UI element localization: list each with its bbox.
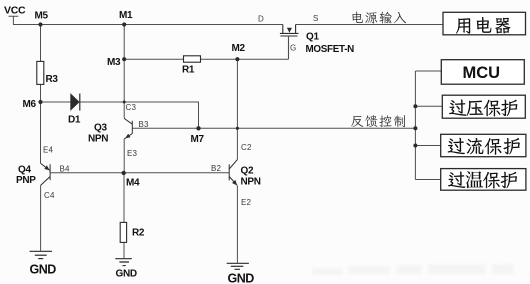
svg-text:B2: B2	[211, 164, 222, 173]
block 用电器	[443, 12, 526, 35]
wire M5/R3 branch vertical	[40, 25, 42, 164]
svg-text:B3: B3	[139, 120, 150, 129]
svg-text:E2: E2	[241, 198, 252, 207]
svg-text:M1: M1	[119, 10, 133, 21]
svg-text:MOSFET-N: MOSFET-N	[306, 44, 355, 55]
node M5	[38, 22, 42, 26]
svg-text:E3: E3	[127, 149, 138, 158]
svg-text:Q4: Q4	[18, 165, 31, 176]
label 过流保护 (over-current protection)	[448, 138, 465, 154]
transistor Q3	[124, 118, 132, 139]
label 过温保护 (over-temperature protection)	[448, 172, 465, 188]
svg-text:MCU: MCU	[463, 64, 501, 82]
block MCU	[441, 60, 524, 84]
svg-text:C4: C4	[44, 191, 55, 200]
svg-text:R1: R1	[182, 65, 195, 76]
wire Q2 collector to M2	[236, 59, 238, 159]
junction bus-overvoltage	[413, 104, 417, 108]
ground GND right	[227, 263, 249, 269]
junction bus-feedback	[413, 126, 417, 130]
svg-text:R2: R2	[132, 228, 145, 239]
label 用电器 (load)	[456, 18, 470, 33]
wire Q3 emitter to M4	[123, 139, 125, 173]
junction bus-overcurrent	[413, 144, 417, 148]
svg-text:M3: M3	[107, 57, 121, 68]
svg-text:GND: GND	[30, 263, 57, 277]
svg-text:VCC: VCC	[4, 5, 26, 17]
node M4	[122, 171, 126, 175]
resistor R1	[184, 56, 201, 62]
svg-text:PNP: PNP	[16, 175, 36, 186]
svg-text:M7: M7	[191, 134, 205, 145]
wire bus stub to over-temperature box	[415, 179, 440, 181]
svg-text:D1: D1	[68, 115, 81, 126]
label 反馈控制 (feedback control)	[351, 116, 363, 127]
wire Q4 collector to ground	[40, 185, 42, 250]
wire feedback row	[132, 127, 415, 129]
wire bus stub to over-voltage box	[415, 105, 442, 107]
wire right bus vertical	[414, 71, 416, 180]
svg-text:NPN: NPN	[88, 134, 108, 145]
svg-text:M6: M6	[23, 99, 37, 110]
svg-text:S: S	[313, 14, 319, 23]
svg-text:G: G	[290, 44, 296, 53]
svg-text:D: D	[258, 15, 264, 24]
wire bus stub to over-current box	[415, 145, 440, 147]
svg-text:E4: E4	[43, 146, 54, 155]
label 过压保护 (over-voltage protection)	[449, 99, 466, 115]
wire Q2 emitter to ground	[236, 186, 238, 263]
wire M4 to R2	[123, 173, 125, 258]
transistor Q1 MOSFET symbol	[280, 25, 299, 59]
svg-text:GND: GND	[116, 269, 137, 280]
block 过流保护	[441, 134, 526, 156]
ground GND middle	[115, 259, 132, 266]
node M6	[38, 100, 42, 104]
svg-text:M5: M5	[35, 11, 49, 22]
block 过压保护	[442, 95, 525, 118]
wire M3 to M2 row	[124, 36, 288, 59]
resistor R2	[120, 222, 126, 242]
node M7	[196, 126, 200, 130]
wire D1 cathode to M7	[80, 102, 199, 128]
VCC power symbol	[9, 16, 19, 24]
diode D1	[41, 101, 71, 103]
resistor R3	[37, 61, 44, 84]
transistor Q4	[41, 163, 51, 185]
wire M1 vertical (to Q3 collector)	[123, 25, 125, 119]
svg-text:GND: GND	[228, 272, 255, 284]
svg-text:C3: C3	[126, 103, 137, 112]
svg-text:NPN: NPN	[241, 177, 261, 188]
ground GND left	[30, 251, 53, 258]
junction D1-C3	[123, 101, 126, 104]
svg-text:R3: R3	[46, 74, 59, 85]
svg-text:Q2: Q2	[241, 166, 254, 177]
wire top VCC rail	[13, 24, 283, 26]
node M1	[122, 22, 126, 26]
junction M2-feedback	[236, 127, 239, 130]
svg-text:Q1: Q1	[306, 32, 319, 43]
label 电源输入 (power input)	[352, 12, 363, 24]
wire source to load box	[296, 24, 443, 26]
block 过温保护	[441, 169, 526, 191]
transistor Q2	[229, 160, 237, 186]
node M3	[122, 57, 126, 61]
svg-text:C2: C2	[241, 143, 252, 152]
svg-text:B4: B4	[60, 165, 71, 174]
svg-text:M4: M4	[126, 178, 140, 189]
wire M4 row	[50, 172, 229, 174]
svg-text:M2: M2	[232, 43, 246, 54]
svg-text:Q3: Q3	[94, 123, 107, 134]
node M2	[235, 57, 239, 61]
wire bus stub to MCU	[415, 70, 441, 72]
faint scan watermark (decor)	[312, 264, 514, 275]
